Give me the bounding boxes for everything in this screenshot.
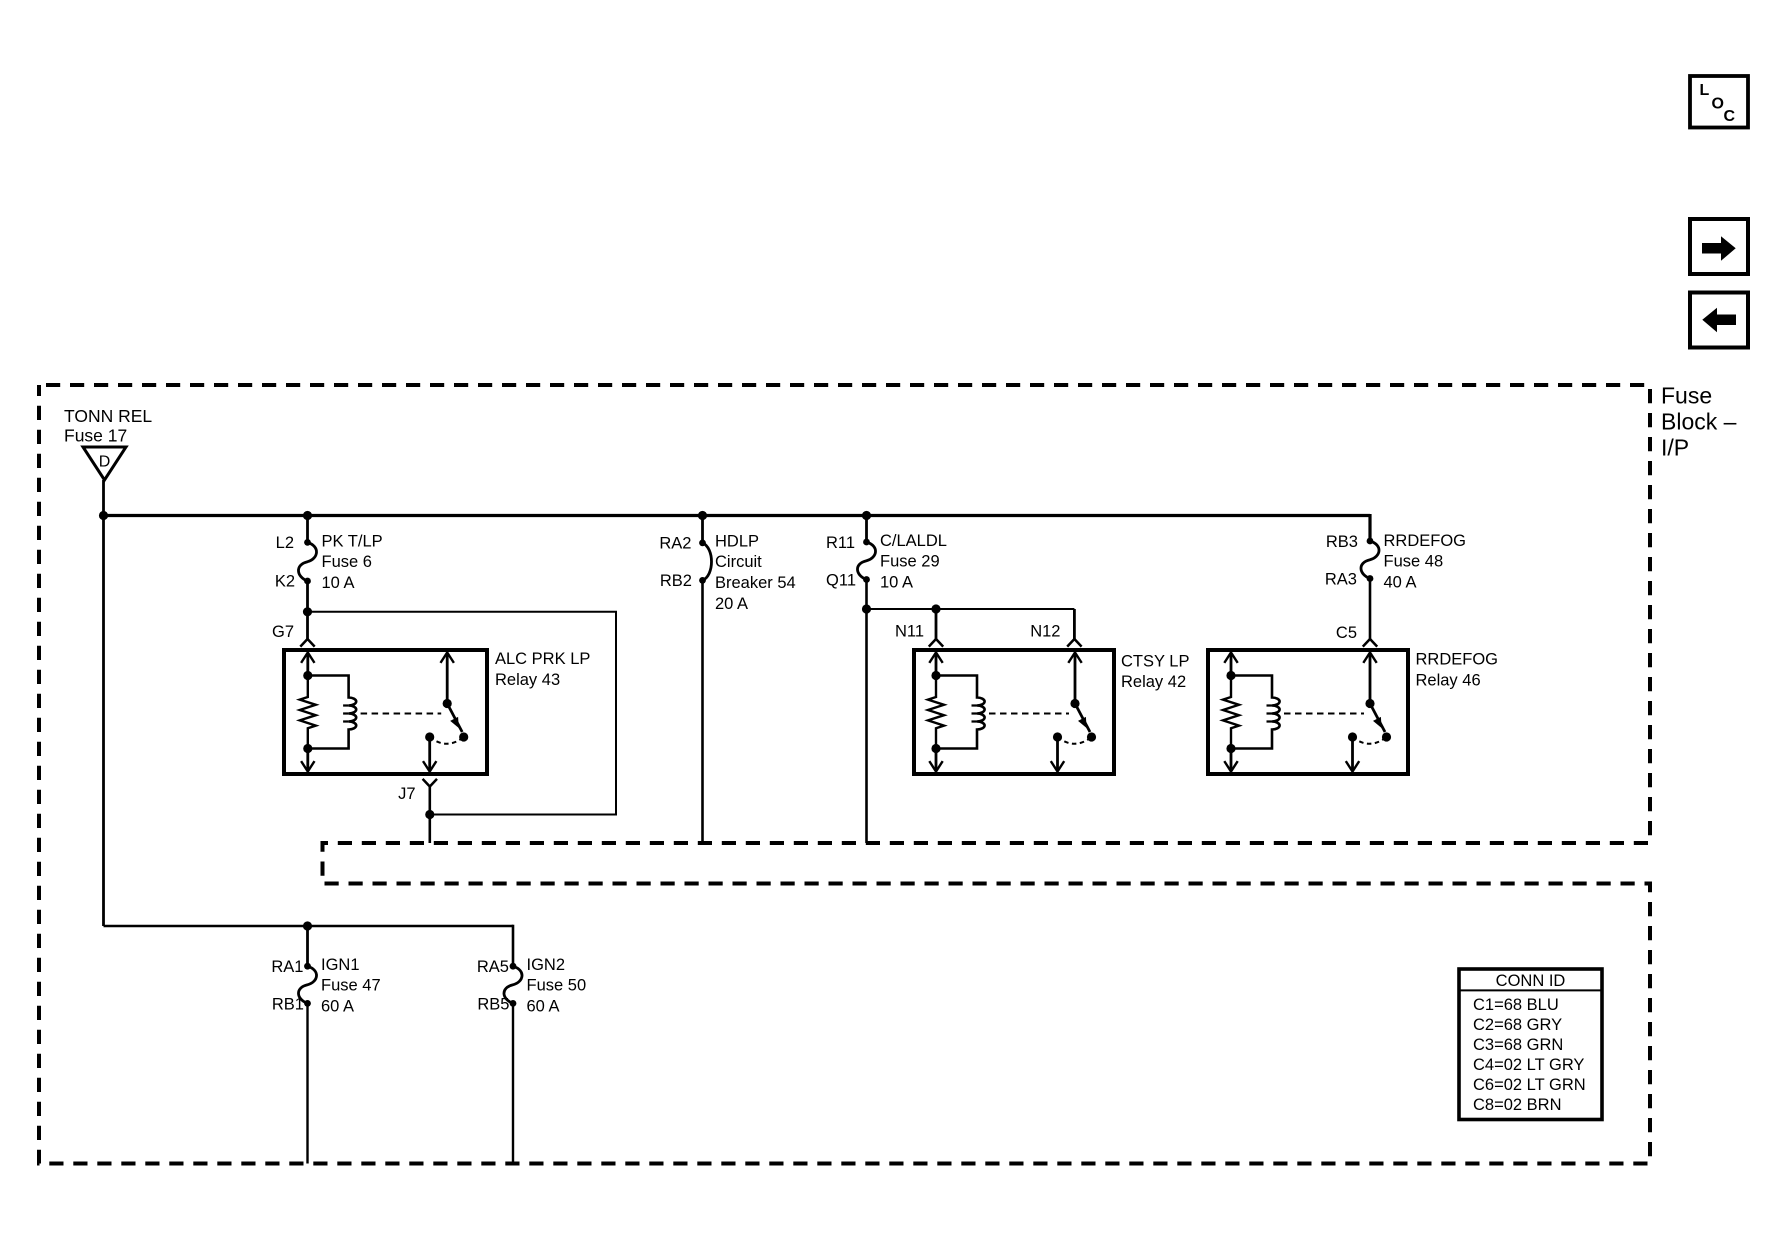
svg-text:RA5: RA5 <box>477 958 509 976</box>
terminal RA1 <box>271 958 311 976</box>
wire RB5 to bottom boundary <box>512 1003 514 1163</box>
node IGN1 branch junction <box>303 921 312 930</box>
svg-text:O: O <box>1712 96 1724 113</box>
svg-text:HDLP: HDLP <box>715 533 759 551</box>
svg-text:Breaker 54: Breaker 54 <box>715 574 796 592</box>
svg-text:RRDEFOG: RRDEFOG <box>1416 651 1499 669</box>
svg-text:Relay 46: Relay 46 <box>1416 672 1481 690</box>
svg-text:L: L <box>1700 82 1710 99</box>
node G7 branch junction <box>303 607 312 616</box>
svg-text:Q11: Q11 <box>826 572 856 590</box>
wire relay43 outer loop <box>308 612 617 815</box>
svg-text:Fuse 48: Fuse 48 <box>1384 553 1444 571</box>
node N11/N12 branch junction <box>862 604 871 613</box>
previous-page arrow button <box>1690 293 1748 348</box>
svg-text:D: D <box>99 454 111 471</box>
svg-text:Block –: Block – <box>1661 409 1737 435</box>
relay U42 internals <box>928 653 1096 772</box>
svg-text:TONN REL: TONN REL <box>64 406 152 426</box>
wire Q11 down to boundary <box>865 580 868 844</box>
wire J7 down to boundary <box>428 787 431 844</box>
wire to N11 N12 <box>867 609 1075 639</box>
relay U43 box ALC PRK LP <box>284 650 487 774</box>
svg-text:IGN2: IGN2 <box>527 956 566 974</box>
svg-text:Relay 43: Relay 43 <box>495 671 560 689</box>
svg-text:PK T/LP: PK T/LP <box>322 533 383 551</box>
svg-text:K2: K2 <box>275 573 295 591</box>
svg-text:RA1: RA1 <box>271 958 303 976</box>
svg-text:20 A: 20 A <box>715 595 748 613</box>
node N11 junction <box>931 604 940 613</box>
svg-text:C3=68 GRN: C3=68 GRN <box>1473 1036 1563 1054</box>
svg-text:N11: N11 <box>895 623 924 641</box>
svg-text:RB5: RB5 <box>477 996 509 1014</box>
label RRDEFOG Relay 46 <box>1416 651 1499 690</box>
connector N12 <box>1030 623 1081 647</box>
svg-text:RB3: RB3 <box>1326 533 1358 551</box>
terminal RB1 <box>272 996 311 1014</box>
svg-text:CONN ID: CONN ID <box>1496 972 1566 990</box>
wire feed corner to RA5 <box>512 925 515 967</box>
svg-text:C1=68 BLU: C1=68 BLU <box>1473 996 1559 1014</box>
LOC reference symbol <box>1690 76 1748 128</box>
svg-text:RB1: RB1 <box>272 996 304 1014</box>
fuse F6 PK T/LP <box>298 533 382 593</box>
next-page arrow button <box>1690 219 1748 274</box>
svg-text:N12: N12 <box>1030 623 1060 641</box>
fuse F29 C/LALDL <box>857 532 946 592</box>
connector C5 <box>1336 624 1377 647</box>
CONN ID legend table <box>1459 969 1602 1120</box>
svg-text:Fuse 29: Fuse 29 <box>880 553 940 571</box>
svg-text:R11: R11 <box>826 534 855 552</box>
terminal RB2 <box>660 572 706 590</box>
svg-text:RRDEFOG: RRDEFOG <box>1384 532 1467 550</box>
svg-text:60 A: 60 A <box>527 998 560 1016</box>
svg-text:40 A: 40 A <box>1384 574 1417 592</box>
svg-text:Fuse: Fuse <box>1661 383 1712 409</box>
svg-text:Circuit: Circuit <box>715 553 762 571</box>
svg-text:Fuse 17: Fuse 17 <box>64 426 127 446</box>
svg-text:C/LALDL: C/LALDL <box>880 532 947 550</box>
terminal L2 <box>276 534 311 552</box>
node bus-TONN junction <box>99 511 108 520</box>
connector J7 <box>398 779 437 803</box>
svg-text:L2: L2 <box>276 534 294 552</box>
off-page triangle connector D <box>83 447 126 480</box>
wire bus to RB3 (right end drop) <box>1368 514 1371 541</box>
svg-text:10 A: 10 A <box>880 574 913 592</box>
relay U42 box CTSY LP <box>914 650 1114 774</box>
fuse F48 RRDEFOG <box>1361 532 1466 592</box>
main bus wire <box>104 514 1371 517</box>
fuse F50 IGN2 <box>504 956 586 1016</box>
wire bus to R11 <box>865 516 868 543</box>
svg-text:C4=02 LT GRY: C4=02 LT GRY <box>1473 1056 1584 1074</box>
terminal RB5 <box>477 996 516 1014</box>
label ALC PRK LP Relay 43 <box>495 650 590 689</box>
relay U46 box RRDEFOG <box>1208 650 1408 774</box>
svg-text:C8=02 BRN: C8=02 BRN <box>1473 1096 1562 1114</box>
relay U43 internals <box>300 653 469 772</box>
connector N11 <box>895 623 943 647</box>
svg-text:10 A: 10 A <box>322 574 355 592</box>
wire bus to L2 <box>306 516 309 543</box>
svg-text:Fuse 50: Fuse 50 <box>527 977 587 995</box>
svg-text:C2=68 GRY: C2=68 GRY <box>1473 1016 1562 1034</box>
svg-text:C5: C5 <box>1336 624 1357 642</box>
svg-text:G7: G7 <box>272 623 294 641</box>
relay U46 internals <box>1223 653 1391 772</box>
wire bus to RA2 <box>701 516 704 543</box>
wire TONN REL vertical + bottom feed <box>104 480 514 926</box>
terminal RA3 <box>1325 571 1374 589</box>
terminal RB3 <box>1326 533 1374 551</box>
fuse block I/P dashed boundary <box>39 385 1650 1164</box>
svg-text:C6=02 LT GRN: C6=02 LT GRN <box>1473 1076 1586 1094</box>
svg-text:C: C <box>1724 108 1736 125</box>
svg-text:RA2: RA2 <box>659 535 691 553</box>
circuit breaker CB54 HDLP <box>703 533 796 614</box>
svg-text:60 A: 60 A <box>321 998 354 1016</box>
terminal R11 <box>826 534 870 552</box>
svg-text:J7: J7 <box>398 785 415 803</box>
svg-text:Fuse 47: Fuse 47 <box>321 977 381 995</box>
wire K2 to G7 <box>306 581 309 639</box>
terminal Q11 <box>826 572 870 590</box>
label CTSY LP Relay 42 <box>1121 653 1189 692</box>
label TONN REL Fuse 17 <box>64 406 152 446</box>
node bus-Breaker54 junction <box>698 511 707 520</box>
svg-text:IGN1: IGN1 <box>321 956 360 974</box>
terminal RA5 <box>477 958 517 976</box>
terminal K2 <box>275 573 311 591</box>
svg-text:Fuse 6: Fuse 6 <box>322 553 372 571</box>
svg-text:ALC PRK LP: ALC PRK LP <box>495 650 590 668</box>
node bus-Fuse6 junction <box>303 511 312 520</box>
label Fuse Block - I/P <box>1661 383 1737 461</box>
svg-text:I/P: I/P <box>1661 435 1689 461</box>
svg-text:RB2: RB2 <box>660 572 692 590</box>
wire RA3 to C5 <box>1369 579 1372 640</box>
connector G7 <box>272 623 315 647</box>
terminal RA2 <box>659 535 706 553</box>
svg-text:Relay 42: Relay 42 <box>1121 673 1186 691</box>
wire feed to RA1 <box>306 926 309 966</box>
wire RB2 down to boundary <box>701 580 704 843</box>
node J7 junction <box>425 810 434 819</box>
fuse F47 IGN1 <box>298 956 380 1016</box>
svg-text:CTSY LP: CTSY LP <box>1121 653 1189 671</box>
wire RB1 to bottom boundary <box>306 1003 308 1163</box>
svg-text:RA3: RA3 <box>1325 571 1357 589</box>
node bus-Fuse29 junction <box>862 511 871 520</box>
